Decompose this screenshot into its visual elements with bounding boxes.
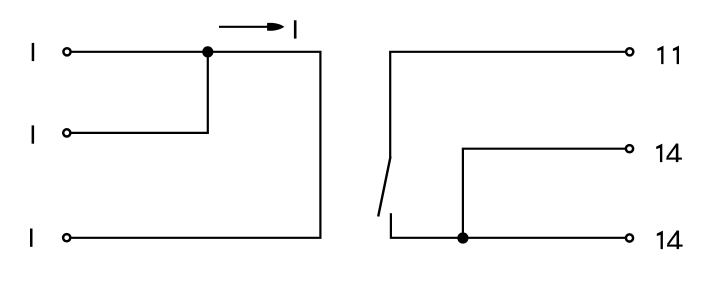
pin label 14 (bottom) [657, 231, 683, 250]
wire: lower fixed contact stub down to bottom wire, right to terminal 14 bottom [391, 213, 625, 238]
wire: from T2 right then up to junction A [71, 52, 207, 133]
terminal circle T3 (bottom left) [63, 234, 70, 241]
junction B (dot on bottom right wire) [457, 232, 468, 243]
label I (coil terminal 3, bottom left) [30, 229, 33, 247]
pin label 11 [657, 46, 679, 65]
terminal circle T1 (top left) [63, 48, 70, 55]
wire: from T1 right, down at x=320, left to T3 [71, 52, 320, 238]
wire: contact common from terminal 11 left then down to switch [390, 52, 625, 157]
terminal circle T2 (middle left) [63, 129, 70, 136]
label I (arrow current) [294, 20, 297, 38]
pin label 14 (middle) [656, 144, 682, 163]
label I (coil terminal 2, middle left) [32, 125, 34, 143]
junction A (dot on top wire) [202, 46, 213, 57]
switch blade (moving contact) [378, 157, 390, 217]
terminal circle T4 (right, pin 11) [626, 48, 633, 55]
label I (coil terminal 1, top left) [32, 43, 35, 61]
current arrow I [219, 23, 284, 30]
wire: junction B up then right to terminal 14 middle [463, 149, 625, 238]
terminal circle T5 (right, pin 14 middle) [626, 145, 633, 152]
terminal circle T6 (right, pin 14 bottom) [626, 234, 633, 241]
